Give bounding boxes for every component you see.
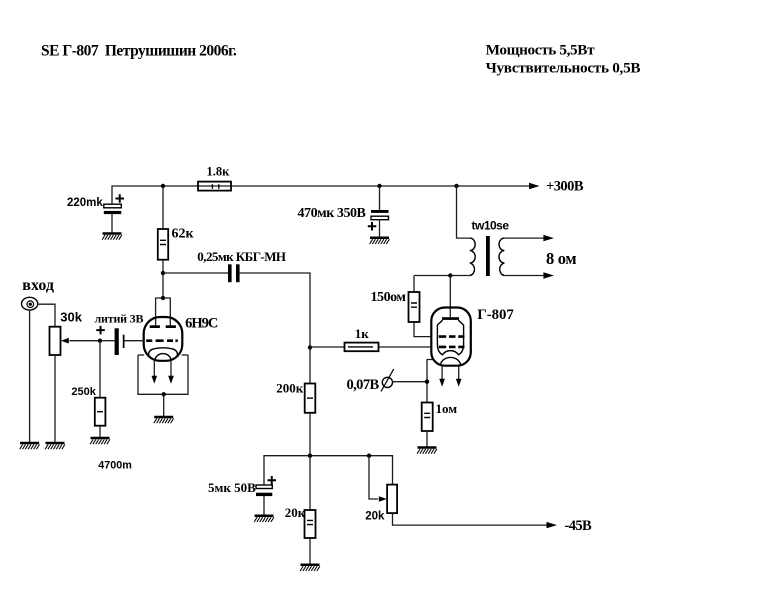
ground under connector	[20, 443, 40, 449]
wire cathode to ground	[163, 394, 165, 417]
node wiper/battery/250k	[98, 339, 102, 343]
svg-text:1ом: 1ом	[436, 401, 458, 416]
wire bus node to 20k pot wiper	[369, 456, 378, 499]
tube Г-807 beam plates / cathode contour	[437, 320, 463, 355]
wire 470uF to ground	[379, 220, 381, 238]
heater arrow right of 6N9S	[170, 361, 172, 377]
svg-text:6Н9С: 6Н9С	[185, 316, 218, 332]
resistor 20k	[305, 510, 316, 538]
svg-text:вход: вход	[22, 277, 54, 294]
probe 0,07V (circle with slash)	[382, 377, 392, 387]
transformer tw10se secondary winding	[499, 238, 504, 275]
svg-text:250k: 250k	[71, 386, 96, 398]
capacitor 220mk (electrolytic)	[104, 194, 124, 214]
wire connector to pot	[38, 304, 55, 327]
wire node to battery	[100, 340, 115, 342]
resistor 150ohm	[409, 292, 420, 322]
resistor 250k	[95, 398, 106, 426]
node bus/20k	[308, 454, 312, 458]
ground under 1ohm	[417, 448, 437, 454]
svg-text:20k: 20k	[365, 511, 385, 523]
wire 1ohm to ground	[426, 431, 428, 448]
svg-text:+300В: +300В	[546, 179, 584, 195]
svg-text:220mk: 220mk	[67, 197, 103, 209]
resistor 1k	[345, 343, 379, 352]
tube 6Н9С anode bars	[150, 325, 160, 328]
node grid junction 200k/1k	[308, 345, 312, 349]
wire node to 1k	[310, 346, 345, 348]
tube Г-807 envelope	[431, 308, 471, 366]
tube 6Н9С envelope	[144, 317, 183, 361]
resistor 200k	[305, 384, 316, 413]
potentiometer 20k	[387, 485, 397, 513]
wire node to coupling cap	[163, 272, 228, 274]
wire 62k to anode node	[162, 260, 164, 298]
svg-text:Чувствительность 0,5В: Чувствительность 0,5В	[486, 60, 641, 77]
capacitor 470uF 350V (electrolytic)	[368, 210, 389, 231]
ground under 470uF	[370, 238, 390, 244]
node anode loop	[161, 296, 165, 300]
arrow wiper 20k pot	[379, 496, 387, 502]
tube Г-807 anode	[442, 317, 459, 320]
arrow +300V	[529, 183, 540, 189]
node bus/pot20k	[367, 454, 371, 458]
wire 20k to ground	[309, 538, 311, 565]
tube 6Н9С cathode arc	[149, 348, 178, 356]
wire anode lead down	[449, 276, 451, 318]
svg-text:62к: 62к	[172, 226, 195, 241]
svg-text:4700m: 4700m	[98, 459, 132, 471]
wire secondary bottom lead	[504, 275, 544, 277]
wire 220mk to ground	[111, 214, 113, 234]
heater arrow left of 6N9S	[153, 361, 155, 377]
svg-text:tw10se: tw10se	[472, 219, 510, 233]
node junction rail/470uF	[377, 184, 381, 188]
node cathode/probe	[425, 380, 429, 384]
ground under 250k	[90, 438, 110, 444]
tube Г-807 control grid (dashed)	[439, 346, 465, 349]
wire wiper	[70, 340, 101, 342]
wire anode node down / anode loop 6N9S	[156, 298, 171, 327]
svg-text:литий 3В: литий 3В	[95, 311, 144, 325]
wire secondary top lead	[504, 237, 544, 239]
tube Г-807 screen grid (dashed)	[439, 335, 465, 338]
wire connector to ground	[29, 310, 31, 443]
arrow -45V	[547, 522, 558, 528]
svg-text:Мощность 5,5Вт: Мощность 5,5Вт	[486, 42, 595, 59]
wire bottom bias bus	[264, 456, 393, 485]
node 62k/coupling cap	[161, 271, 165, 275]
wire down to 150ohm	[413, 276, 415, 293]
ground under 220mk	[102, 234, 122, 240]
heater arrow right of Г-807	[458, 366, 460, 380]
wire rail to 470uF	[379, 186, 381, 210]
wire pot bottom to -45V	[393, 513, 547, 525]
capacitor 0.25uF KBG-MN	[228, 264, 232, 282]
wire pot to ground	[54, 355, 56, 443]
svg-text:Г-807: Г-807	[477, 307, 514, 323]
arrow wiper 30k	[61, 338, 69, 344]
wire node to 250k	[99, 341, 101, 398]
resistor 62k	[158, 229, 168, 260]
wire grid lead from battery	[125, 340, 144, 342]
wire rail to 62k	[162, 186, 164, 229]
svg-text:0,25мк КБГ-МН: 0,25мк КБГ-МН	[197, 249, 286, 264]
transformer tw10se primary winding	[470, 238, 475, 275]
svg-text:-45В: -45В	[565, 518, 593, 534]
wire rail down to transformer primary	[457, 186, 470, 238]
svg-text:SE Г-807 Петрушишин 2006г.: SE Г-807 Петрушишин 2006г.	[41, 43, 237, 60]
wire 250k to ground	[99, 426, 101, 438]
wire top +300V rail	[112, 186, 530, 204]
wire 1k to control grid	[379, 346, 432, 348]
wire cathode Г-807	[427, 360, 433, 403]
svg-text:8 ом: 8 ом	[546, 249, 576, 268]
wire 150ohm to screen grid	[414, 322, 432, 337]
svg-text:20к: 20к	[285, 505, 306, 520]
wire coupling cap to grid node	[240, 273, 310, 348]
svg-text:1.8к: 1.8к	[207, 165, 231, 179]
capacitor 5uF 50V	[256, 476, 276, 496]
node junction rail/transformer	[454, 184, 458, 188]
resistor 1ohm	[422, 403, 433, 432]
ground under 5uF	[254, 516, 274, 522]
wire 200k to bottom bus	[309, 413, 311, 456]
battery литий 3В plates	[115, 328, 119, 355]
wire 5uF to ground	[263, 496, 265, 516]
ground under 20k	[300, 565, 320, 571]
svg-text:470мк 350В: 470мк 350В	[298, 206, 366, 221]
ground under 6N9S	[154, 417, 174, 423]
resistor 1.8k	[198, 182, 231, 191]
wire probe to cathode	[393, 381, 427, 383]
svg-text:1к: 1к	[355, 326, 370, 341]
input connector	[22, 297, 38, 310]
arrow secondary top	[543, 235, 554, 241]
node junction rail/62k	[161, 184, 165, 188]
svg-text:150ом: 150ом	[371, 290, 407, 305]
wire grid node to 200k	[309, 348, 311, 384]
wire primary bottom to screen node	[414, 275, 470, 277]
svg-text:200к: 200к	[276, 381, 304, 396]
node anode/primary junction	[448, 273, 452, 277]
tube 6Н9С heater dome	[155, 354, 171, 361]
heater arrow left of Г-807	[441, 366, 443, 380]
node cathode box bottom	[162, 392, 166, 396]
tube 6Н9С grid (dashed)	[146, 339, 178, 342]
battery литий 3В plus sign	[96, 326, 105, 335]
arrow secondary bottom	[543, 272, 554, 278]
svg-text:5мк 50В: 5мк 50В	[208, 480, 256, 495]
svg-text:30k: 30k	[60, 310, 82, 325]
transformer core	[486, 236, 490, 276]
wire bus to 20k	[309, 456, 311, 510]
wire cathode box 6N9S	[138, 354, 144, 356]
svg-text:0,07В: 0,07В	[347, 377, 380, 393]
ground under pot	[45, 443, 65, 449]
tube Г-807 heater dome	[440, 357, 460, 365]
potentiometer 30k	[50, 327, 61, 355]
